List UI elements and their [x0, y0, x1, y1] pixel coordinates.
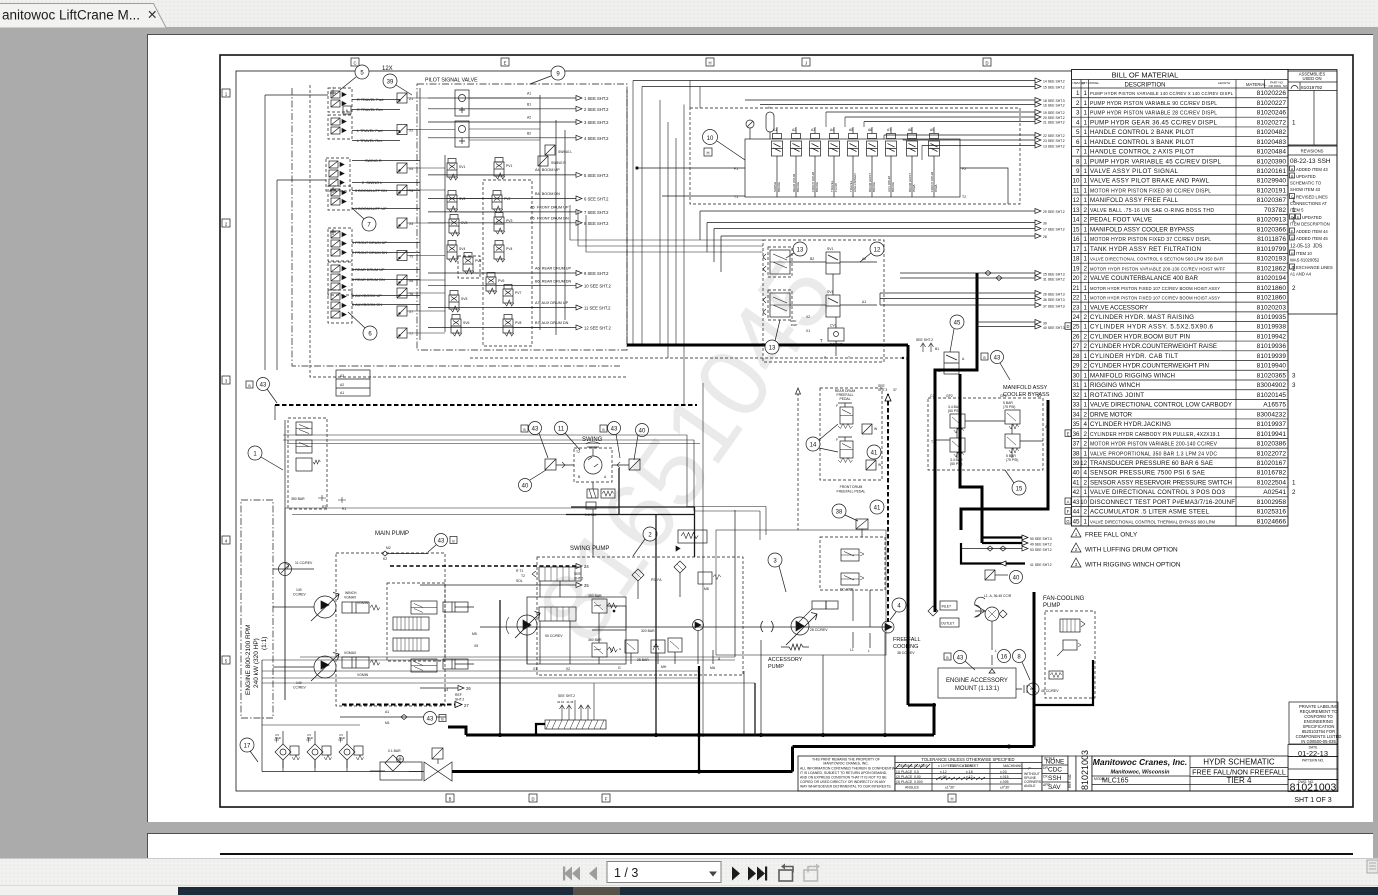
svg-text:40: 40 [522, 484, 529, 490]
pilot check boxes [397, 93, 413, 338]
callout circle 15 [1005, 470, 1026, 495]
svg-text:81020191: 81020191 [1257, 187, 1287, 194]
svg-text:TOLERANCE UNLESS OTHERWISE SPE: TOLERANCE UNLESS OTHERWISE SPECIFIED [921, 757, 1014, 762]
svg-text:1: 1 [1084, 324, 1088, 331]
svg-text:43: 43 [260, 383, 267, 389]
svg-text:SEE SHT.2: SEE SHT.2 [916, 338, 933, 342]
svg-text:DC 0309: DC 0309 [840, 588, 853, 592]
svg-text:X1: X1 [806, 329, 810, 333]
free fall manifold item 12 enclosure [763, 240, 884, 362]
svg-text:7 SEE SHT.2: 7 SEE SHT.2 [584, 210, 609, 215]
svg-text:HANDLE CONTROL 2 AXIS PILOT: HANDLE CONTROL 2 AXIS PILOT [1090, 149, 1194, 156]
svg-text:PUMP HYDR GEAR 36.45 CC/REV DI: PUMP HYDR GEAR 36.45 CC/REV DISPL [1090, 119, 1218, 126]
svg-text:26 SEE SHT.3: 26 SEE SHT.3 [1043, 293, 1065, 297]
svg-text:PV4: PV4 [506, 247, 513, 251]
tank collector lines [262, 510, 885, 772]
svg-text:43: 43 [427, 717, 434, 723]
svg-text:350 BAR: 350 BAR [588, 594, 602, 598]
svg-text:2: 2 [1084, 411, 1088, 418]
svg-text:B: B [946, 656, 949, 660]
svg-text:P1: P1 [734, 167, 738, 171]
svg-text:13 SEE SHT.2: 13 SEE SHT.2 [1043, 145, 1065, 149]
confidential note block [798, 756, 898, 791]
accessory spring [781, 644, 809, 650]
drain riser x755 [754, 683, 756, 735]
svg-text:MH: MH [661, 665, 667, 669]
T return thick line [627, 338, 908, 345]
svg-text:81020193: 81020193 [1257, 256, 1287, 263]
svg-text:ANGLES: ANGLES [905, 786, 919, 790]
svg-text:12: 12 [1080, 460, 1087, 467]
svg-text:MOTOR HYDR PISTON FIXED 37 CC/: MOTOR HYDR PISTON FIXED 37 CC/REV DISPL [1090, 237, 1211, 243]
svg-text:R TRAVEL Rev: R TRAVEL Rev [357, 108, 383, 112]
cooler return bus [793, 747, 1035, 772]
svg-text:17 SEE SHT.2: 17 SEE SHT.2 [1043, 228, 1065, 232]
callout circle 10 [703, 130, 746, 161]
svg-text:MOTOR HYDR PISTON VARIABLE 200: MOTOR HYDR PISTON VARIABLE 200-140 CC/RE… [1090, 442, 1218, 448]
svg-text:1: 1 [1084, 392, 1088, 399]
svg-text:4: 4 [1084, 421, 1088, 428]
svg-text:34: 34 [1073, 411, 1080, 418]
svg-text:1: 1 [1084, 450, 1088, 457]
svg-text:6: 6 [1076, 139, 1080, 146]
svg-text:PUMP: PUMP [1043, 603, 1060, 609]
svg-text:±0°30': ±0°30' [1000, 786, 1010, 790]
tank suction header [262, 725, 424, 772]
svg-text:38: 38 [836, 510, 843, 516]
svg-text:37 SEE SHT.3: 37 SEE SHT.3 [1043, 305, 1065, 309]
svg-text:240 kW (320 HP): 240 kW (320 HP) [253, 638, 260, 688]
svg-text:PV5: PV5 [475, 259, 482, 263]
svg-text:1: 1 [1084, 518, 1088, 525]
svg-text:FREEFALL PEDAL: FREEFALL PEDAL [837, 490, 866, 494]
svg-text:10: 10 [1073, 178, 1080, 185]
main pump label + callout [375, 531, 457, 552]
solenoid cartridge SV1 upper [826, 247, 840, 274]
svg-text:B5 FRONT DRUM DN: B5 FRONT DRUM DN [530, 217, 569, 221]
svg-text:B: B [578, 475, 581, 479]
manitowoc title block [1092, 756, 1288, 791]
svg-text:7: 7 [1076, 149, 1080, 156]
svg-text:8 SEE SHT.2: 8 SEE SHT.2 [584, 221, 609, 226]
bypass relief col1 [948, 405, 965, 466]
svg-text:1: 1 [1084, 285, 1088, 292]
svg-text:43: 43 [611, 427, 618, 433]
svg-text:OUTLET: OUTLET [941, 622, 954, 626]
svg-text:31: 31 [1073, 382, 1080, 389]
arrows out right 26 27 [420, 686, 471, 702]
svg-text:Z1: Z1 [409, 97, 413, 101]
svg-text:81020367: 81020367 [1257, 197, 1287, 204]
svg-text:24: 24 [584, 564, 589, 569]
svg-text:A4 BOOM UP: A4 BOOM UP [535, 168, 560, 172]
svg-text:15: 15 [1073, 226, 1080, 233]
svg-text:DESCRIPTION: DESCRIPTION [1124, 83, 1165, 89]
svg-text:CYLINDER HYDR. CAB TILT: CYLINDER HYDR. CAB TILT [1090, 353, 1178, 360]
svg-text:81024666: 81024666 [1257, 518, 1287, 525]
svg-text:81020161: 81020161 [1257, 168, 1287, 175]
zone marker bottom D [529, 794, 537, 802]
wire drops into manifold [690, 81, 922, 161]
vertical dwg number cell [1068, 750, 1092, 791]
svg-text:(75 PSI): (75 PSI) [1006, 458, 1018, 462]
pressure reducing stack [288, 418, 346, 511]
svg-text:T: T [332, 87, 334, 91]
svg-text:PV8: PV8 [515, 321, 522, 325]
svg-text:2 SWING L: 2 SWING L [362, 181, 382, 185]
svg-text:VALVE PROPORTIONAL 350 BAR 1.3: VALVE PROPORTIONAL 350 BAR 1.3 LPM 24 VD… [1090, 451, 1217, 457]
svg-text:81025316: 81025316 [1257, 509, 1287, 516]
svg-text:CC/REV: CC/REV [293, 686, 307, 690]
svg-text:D: D [985, 61, 988, 66]
svg-text:6 SEE SHT.2: 6 SEE SHT.2 [584, 197, 609, 202]
svg-text:F: F [836, 404, 838, 408]
pilot bus vertical wires [633, 81, 684, 406]
svg-text:81019941: 81019941 [1257, 431, 1287, 438]
svg-text:VALVE COUNTERBALANCE 400 BAR: VALVE COUNTERBALANCE 400 BAR [1090, 275, 1199, 282]
svg-text:A1: A1 [773, 128, 777, 132]
control row labels [352, 98, 387, 307]
svg-text:A6 REAR DRUM UP: A6 REAR DRUM UP [535, 267, 572, 271]
svg-text:5: 5 [1076, 129, 1080, 136]
drive shaft line [480, 621, 888, 632]
svg-text:MOTOR HYDR PISTON FIXED 107 CC: MOTOR HYDR PISTON FIXED 107 CC/REV BOOM … [1090, 296, 1220, 301]
svg-text:BAR: BAR [275, 736, 281, 740]
svg-text:BILL OF MATERIAL: BILL OF MATERIAL [1112, 71, 1179, 80]
svg-text:41 SEE SHT.2: 41 SEE SHT.2 [1030, 563, 1052, 567]
svg-text:81020913: 81020913 [1257, 217, 1287, 224]
svg-text:22: 22 [1073, 295, 1080, 302]
svg-text:SWING PUMP: SWING PUMP [570, 546, 609, 552]
junction dots on buses [498, 703, 1011, 749]
PS FA labels [619, 578, 662, 651]
pilot signal valve enclosure (item 9) [417, 78, 627, 351]
toolbar rotate-right icon (disabled) [804, 864, 820, 882]
svg-text:CDC: CDC [1048, 767, 1062, 774]
tolerance block [895, 756, 1042, 791]
svg-text:3: 3 [225, 379, 228, 384]
svg-text:50 SEE SHT.3: 50 SEE SHT.3 [1030, 537, 1052, 541]
svg-text:1: 1 [1084, 236, 1088, 243]
svg-text:WAY WHATSOEVER DETRIMENTAL TO: WAY WHATSOEVER DETRIMENTAL TO OUR INTERE… [800, 785, 892, 789]
svg-text:X2: X2 [806, 315, 810, 319]
svg-text:1 BOOM/LUFF UP: 1 BOOM/LUFF UP [355, 207, 387, 211]
svg-text:90 CC/REV: 90 CC/REV [545, 634, 563, 638]
svg-text:SV4: SV4 [459, 247, 466, 251]
svg-text:2 FRONT DRUM DN: 2 FRONT DRUM DN [352, 251, 387, 255]
svg-text:2: 2 [1292, 285, 1296, 292]
svg-text:2: 2 [1084, 314, 1088, 321]
svg-text:anitowoc LiftCrane M...: anitowoc LiftCrane M... [2, 8, 140, 23]
svg-text:PAWL: PAWL [912, 184, 916, 192]
zone marker top J [802, 58, 810, 66]
svg-text:VGMAX: VGMAX [344, 651, 357, 655]
svg-text:26: 26 [1073, 333, 1080, 340]
svg-text:J: J [1291, 266, 1293, 270]
svg-text:MATERIAL: MATERIAL [1246, 82, 1267, 87]
fan pump control valve [1060, 619, 1085, 632]
manifold P1 supply wire [636, 167, 745, 170]
svg-text:10: 10 [1080, 499, 1087, 506]
svg-text:FLOW: FLOW [834, 183, 838, 192]
svg-text:49 SEE SHT.2: 49 SEE SHT.2 [1030, 543, 1052, 547]
svg-text:35: 35 [1073, 421, 1080, 428]
fan pump block [1045, 611, 1095, 698]
svg-text:Y5: Y5 [409, 255, 413, 259]
svg-text:B: B [523, 428, 526, 432]
svg-text:SOL: SOL [516, 579, 523, 583]
svg-text:5: 5 [225, 659, 228, 664]
svg-text:40: 40 [1073, 470, 1080, 477]
fan pump servo [1057, 640, 1081, 656]
svg-text:ITEM DESCRIPTION: ITEM DESCRIPTION [1290, 222, 1330, 227]
svg-text:PV3: PV3 [506, 219, 513, 223]
svg-text:MLC165: MLC165 [1102, 778, 1129, 785]
pattern no box [1288, 757, 1338, 780]
svg-text:12X: 12X [382, 66, 393, 72]
note triangle 1 free fall only [1071, 528, 1138, 539]
svg-text:1: 1 [1084, 168, 1088, 175]
svg-text:41: 41 [1073, 479, 1080, 486]
mount shaft [1016, 685, 1034, 693]
svg-text:K2: K2 [383, 557, 387, 561]
svg-text:INLET: INLET [942, 605, 952, 609]
svg-text:SV5: SV5 [461, 297, 468, 301]
svg-text:MANIFOLD ASSY COOLER BYPASS: MANIFOLD ASSY COOLER BYPASS [1090, 226, 1194, 233]
zone marker bottom F [602, 794, 610, 802]
drain riser x500 [499, 600, 501, 735]
svg-text:±.005: ±.005 [1000, 780, 1009, 784]
callout circle 40 right [634, 424, 649, 461]
svg-text:1: 1 [1084, 256, 1088, 263]
front pedal valve [836, 437, 853, 463]
svg-text:81011876: 81011876 [1257, 236, 1286, 243]
svg-text:1: 1 [1292, 479, 1296, 486]
svg-text:CYLINDER HYDR.COUNTERWEIGHT PI: CYLINDER HYDR.COUNTERWEIGHT PIN [1090, 363, 1209, 370]
svg-text:81020203: 81020203 [1257, 304, 1287, 311]
svg-text:21: 21 [1073, 285, 1080, 292]
svg-text:703782: 703782 [1264, 207, 1286, 214]
svg-text:A8: A8 [908, 128, 912, 132]
svg-text:40: 40 [1013, 576, 1020, 582]
handle control U5 (2-bank pilot, item 5) [328, 88, 352, 112]
toolbar right corner icon [1367, 860, 1378, 873]
svg-text:29 SEE SHT.2: 29 SEE SHT.2 [1043, 210, 1065, 214]
svg-text:81029940: 81029940 [1257, 178, 1287, 185]
svg-text:RIGGING WINCH: RIGGING WINCH [1090, 382, 1140, 389]
svg-text:2 SEE SHT.2: 2 SEE SHT.2 [584, 107, 609, 112]
swing filter diamond 1 [632, 569, 644, 581]
zone ref B + callout 43 (swing left) [521, 422, 548, 459]
svg-text:81020386: 81020386 [1257, 441, 1287, 448]
svg-text:B2: B2 [527, 132, 531, 136]
svg-text:81021862: 81021862 [1257, 265, 1287, 272]
left console riser wires [265, 95, 328, 370]
svg-text:18: 18 [1073, 256, 1080, 263]
svg-text:MANIFOLD RIGGING WINCH: MANIFOLD RIGGING WINCH [1090, 372, 1175, 379]
svg-text:MOTOR HYDR PISTON VARIABLE 200: MOTOR HYDR PISTON VARIABLE 200-130 CC/RE… [1090, 266, 1225, 271]
svg-text:A1: A1 [862, 300, 866, 304]
toolbar next-page button [732, 867, 740, 881]
svg-text:40: 40 [639, 429, 646, 435]
svg-text:SWING R: SWING R [551, 161, 566, 165]
svg-text:ADDED ITEM 44: ADDED ITEM 44 [1296, 229, 1328, 234]
bypass ports [930, 394, 1049, 444]
svg-text:VALVE ASSY PILOT SIGNAL: VALVE ASSY PILOT SIGNAL [1090, 168, 1179, 175]
callout circle 41 upper [867, 445, 881, 459]
svg-text:MACHINING: MACHINING [1003, 764, 1023, 768]
sheet number [1294, 797, 1331, 804]
svg-text:B1: B1 [1037, 394, 1041, 398]
svg-text:43: 43 [1073, 499, 1080, 506]
svg-text:B: B [452, 540, 455, 544]
check CV1 [828, 324, 844, 347]
main pump 1 [293, 588, 339, 621]
svg-text:A9: A9 [930, 128, 934, 132]
svg-text:PATTERN NO.: PATTERN NO. [1302, 759, 1324, 763]
svg-text:38: 38 [1073, 450, 1080, 457]
svg-text:HIGH-SPEED: HIGH-SPEED [853, 172, 857, 192]
freefall cooling label [893, 637, 921, 655]
svg-text:A5: A5 [849, 128, 853, 132]
svg-text:5 AUX/BOOM UP: 5 AUX/BOOM UP [352, 294, 382, 298]
svg-text:PV6: PV6 [498, 279, 505, 283]
svg-text:SAV: SAV [1048, 784, 1061, 791]
second page drawing border top [220, 853, 1353, 855]
svg-text:81019937: 81019937 [1257, 421, 1287, 428]
item15 outlet riser [961, 400, 1048, 530]
svg-text:MOTOR HYDR PISTON FIXED 80 CC/: MOTOR HYDR PISTON FIXED 80 CC/REV DISPL [1090, 188, 1211, 194]
svg-text:SV1: SV1 [827, 247, 834, 251]
svg-text:08-22-13 SSH: 08-22-13 SSH [1290, 158, 1331, 165]
svg-text:81019939: 81019939 [1257, 353, 1287, 360]
see sht3 37 heavy dashed riser [878, 384, 897, 622]
svg-text:(75 PSI): (75 PSI) [1003, 405, 1015, 409]
svg-text:37: 37 [893, 388, 897, 392]
svg-text:4 REAR DRUM DN: 4 REAR DRUM DN [352, 278, 385, 282]
svg-text:T2: T2 [521, 574, 525, 578]
manifold item 10 body [745, 139, 960, 197]
manifold P2 wire [960, 168, 1008, 204]
handle control item 6 [328, 228, 352, 261]
M2 K2 labels + diamond fitting [382, 546, 428, 561]
callout circle 45 [950, 315, 964, 352]
svg-text:53 SEE SHT.2: 53 SEE SHT.2 [1030, 548, 1052, 552]
svg-text:1: 1 [1084, 197, 1088, 204]
svg-text:25: 25 [1073, 324, 1080, 331]
brake valve lower item 13 [763, 290, 792, 320]
svg-text:WAS 81020052: WAS 81020052 [1290, 258, 1320, 263]
zone ref B + callout 43 (swing right) [600, 422, 621, 459]
svg-text:CC/REV: CC/REV [293, 593, 307, 597]
svg-text:2: 2 [1084, 363, 1088, 370]
connectors 26 36 37 [880, 291, 1065, 309]
svg-text:A4: A4 [830, 128, 834, 132]
revisions box [1288, 146, 1337, 314]
svg-text:E: E [504, 61, 507, 66]
svg-text:44: 44 [1073, 509, 1080, 516]
svg-text:81020226: 81020226 [1257, 90, 1287, 97]
suction bus [446, 770, 793, 773]
svg-text:32: 32 [1073, 392, 1080, 399]
svg-text:BAR: BAR [307, 736, 313, 740]
svg-text:E: E [1067, 431, 1070, 436]
svg-text:2: 2 [1084, 333, 1088, 340]
svg-text:17: 17 [1073, 246, 1080, 253]
sheet 2 connector arrows rows 1-12 [428, 96, 611, 331]
manifold T1 wire [662, 195, 745, 197]
svg-text:HYDR SCHEMATIC: HYDR SCHEMATIC [1203, 758, 1275, 767]
fan pump winding [1049, 671, 1063, 679]
pilot interconnect wires [407, 98, 540, 333]
date box [1288, 745, 1338, 759]
svg-text:T: T [820, 338, 823, 343]
svg-text:40 SEE SHT.3: 40 SEE SHT.3 [1043, 326, 1065, 330]
callout circle 9 [530, 66, 565, 84]
svg-text:A2: A2 [527, 116, 531, 120]
svg-text:11: 11 [1073, 187, 1080, 194]
svg-text:ROTATING JOINT: ROTATING JOINT [1090, 392, 1144, 399]
return riser x699 [697, 666, 701, 774]
svg-text:1: 1 [1084, 149, 1088, 156]
inlet outlet boxes [928, 601, 959, 627]
svg-text:GP1: GP1 [1000, 394, 1007, 398]
svg-text:CYLINDER HYDR CARBODY PIN PULL: CYLINDER HYDR CARBODY PIN PULLER, 4X2X19… [1090, 432, 1220, 438]
svg-text:VALVE DIRECTIONAL CONTROL 6 SE: VALVE DIRECTIONAL CONTROL 6 SECTION 560 … [1090, 257, 1223, 262]
svg-text:A6: A6 [868, 128, 872, 132]
svg-text:10: 10 [707, 136, 714, 142]
svg-text:29: 29 [1073, 363, 1080, 370]
callout circle 13 lower [765, 320, 780, 354]
svg-text:22 SEE SHT.2: 22 SEE SHT.2 [1043, 134, 1065, 138]
svg-text:81020365: 81020365 [1257, 372, 1287, 379]
zone marker left 3 [222, 376, 230, 384]
svg-text:H: H [950, 797, 953, 802]
svg-text:13: 13 [797, 248, 804, 254]
item12 internal wires [790, 257, 877, 360]
svg-text:VALVE BALL .75-16 UN SAE O-RIN: VALVE BALL .75-16 UN SAE O-RING BOSS THD [1090, 208, 1214, 214]
svg-text:45: 45 [1073, 518, 1080, 525]
svg-text:2: 2 [1084, 343, 1088, 350]
svg-text:G: G [618, 666, 621, 670]
svg-text:SCHEMATIC TO: SCHEMATIC TO [1290, 181, 1322, 186]
main pump control valves [393, 601, 437, 672]
svg-text:41: 41 [874, 506, 881, 512]
svg-text:14 SEE SHT.2: 14 SEE SHT.2 [1043, 80, 1065, 84]
svg-text:MAIN PUMP: MAIN PUMP [375, 531, 409, 537]
freefall cooling pump [882, 621, 894, 633]
rotating joint elbow [536, 724, 545, 735]
svg-text:SHT.3: SHT.3 [878, 388, 887, 392]
svg-text:ALL INFORMATION CONTAINED THER: ALL INFORMATION CONTAINED THEREIN IS CON… [800, 767, 898, 771]
svg-text:1: 1 [1084, 110, 1088, 117]
svg-text:15 SEE SHT.2: 15 SEE SHT.2 [1043, 86, 1065, 90]
svg-text:X5: X5 [409, 222, 413, 226]
svg-text:FRONT DRUM: FRONT DRUM [840, 485, 863, 489]
freefall pedal block item 14 [820, 388, 882, 480]
zone B callout 43 fan [944, 651, 975, 671]
svg-text:L1, A, 36.45 CC/R: L1, A, 36.45 CC/R [984, 594, 1012, 598]
svg-text:81019942: 81019942 [1257, 333, 1287, 340]
svg-text:BRAKE: BRAKE [891, 182, 895, 192]
svg-text:PUMP HYDR PISTON VARIABLE 90 C: PUMP HYDR PISTON VARIABLE 90 CC/REV DISP… [1090, 101, 1217, 107]
svg-text:2: 2 [1084, 207, 1088, 214]
svg-text:2: 2 [1084, 509, 1088, 516]
swing case drain drop [655, 515, 657, 738]
svg-text:QTY MODEL: QTY MODEL [1082, 81, 1100, 85]
main pump dashed enclosures [336, 553, 445, 706]
svg-text:R3: R3 [322, 505, 326, 509]
